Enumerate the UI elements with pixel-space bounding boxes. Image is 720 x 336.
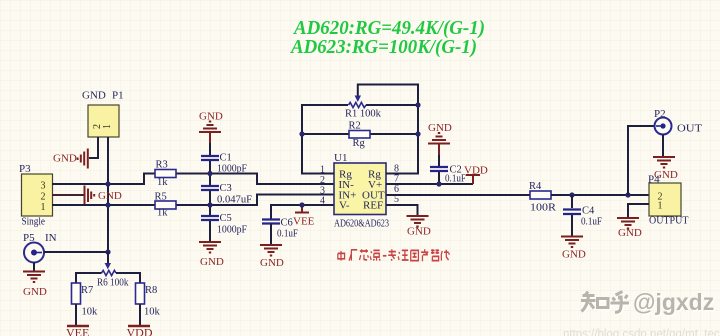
svg-text:AD620&AD623: AD620&AD623 — [334, 218, 389, 230]
wire P3 pin3 to R3 and U1 IN- — [52, 174, 155, 185]
svg-text:P2: P2 — [654, 108, 666, 120]
capacitor C3 0.047uF — [201, 183, 252, 206]
svg-text:VDD: VDD — [464, 165, 488, 177]
watermark 知乎 @jgxdz — [581, 289, 716, 316]
resistor R7 — [72, 283, 99, 318]
wire P1 pin2 to ground — [89, 137, 98, 158]
wire R8 to VDD — [139, 304, 141, 326]
svg-text:R3: R3 — [156, 160, 168, 171]
power VDD at U1 pin7 — [464, 165, 488, 185]
ground GND below C5 — [199, 242, 224, 268]
svg-text:GND: GND — [98, 190, 122, 202]
junction node P1/pin3 line — [105, 181, 110, 186]
ground GND at P3 pin2 — [85, 186, 95, 206]
svg-text:R6 100k: R6 100k — [97, 278, 129, 289]
svg-text:P3: P3 — [19, 163, 31, 175]
wire R3 to C1 node to U1 pin2 — [176, 174, 334, 185]
ground GND below P2 — [653, 157, 678, 181]
power VEE below R7 — [66, 326, 89, 336]
svg-text:GND: GND — [428, 122, 452, 134]
wire up to P2 — [628, 126, 655, 195]
svg-text:R2: R2 — [349, 121, 361, 132]
junction node R2 right — [415, 131, 420, 136]
svg-text:V-: V- — [339, 200, 350, 212]
svg-text:R1 100k: R1 100k — [345, 109, 382, 120]
junction node C2/pin7 — [436, 181, 441, 186]
wire R6 right to R8 — [116, 273, 140, 283]
svg-text:1: 1 — [41, 202, 46, 213]
svg-text:0.1uF: 0.1uF — [277, 229, 298, 240]
svg-text:1000pF: 1000pF — [217, 225, 247, 236]
wire R5 to C3 node to U1 pin3 — [176, 195, 334, 206]
svg-text:1k: 1k — [157, 177, 168, 188]
capacitor C1 1000pF — [201, 153, 247, 175]
wire P2 shield to ground — [662, 135, 664, 157]
svg-text:P4: P4 — [648, 174, 660, 186]
wire U1 pin8 to Rg loop — [358, 85, 418, 174]
svg-text:AD623:RG=100K/(G-1): AD623:RG=100K/(G-1) — [289, 36, 477, 58]
svg-text:C6: C6 — [281, 218, 293, 229]
connector P5 IN — [23, 232, 57, 263]
junction node C4 tap — [569, 192, 574, 197]
svg-text:U1: U1 — [334, 152, 347, 164]
svg-text:C4: C4 — [582, 206, 595, 217]
代 — [441, 250, 449, 261]
svg-text:10k: 10k — [82, 307, 99, 318]
junction node VEE/pin4 — [299, 202, 304, 207]
ground GND above C2 — [428, 122, 452, 155]
svg-text:VEE: VEE — [293, 216, 315, 228]
ground GND below C6 — [260, 245, 284, 269]
svg-text:1000pF: 1000pF — [217, 164, 247, 175]
svg-text:GND: GND — [407, 226, 431, 238]
resistor R2 Rg — [349, 121, 371, 150]
connector P1 — [82, 90, 124, 138]
产 — [421, 249, 428, 261]
- — [383, 255, 387, 257]
wire P4 pin1 to ground — [628, 204, 649, 217]
svg-text:R8: R8 — [145, 285, 157, 296]
svg-text:GND: GND — [562, 249, 586, 261]
svg-text:C5: C5 — [220, 213, 232, 224]
ground GND at P4 pin1 — [617, 218, 642, 239]
svg-text:7: 7 — [394, 174, 399, 185]
svg-text:IN: IN — [45, 232, 57, 244]
svg-text:100R: 100R — [530, 203, 556, 214]
svg-text:nttps://blog.csdn.net/qq/mt_te: nttps://blog.csdn.net/qq/mt_techno — [563, 329, 720, 336]
power VEE at U1 pin4 — [293, 205, 315, 228]
svg-text:REF: REF — [363, 200, 383, 212]
svg-text:GND: GND — [53, 153, 77, 165]
junction node P2/P4 — [625, 192, 630, 197]
svg-text:OUT: OUT — [677, 123, 702, 135]
wire U1 pin7 V+ to VDD — [386, 183, 473, 185]
resistor R5 — [155, 192, 177, 219]
svg-text:R7: R7 — [81, 285, 93, 296]
wire U1 pin5 REF to ground — [386, 205, 418, 215]
svg-text:R5: R5 — [155, 192, 167, 203]
svg-text:2: 2 — [41, 192, 46, 203]
wire P3 pin2 to ground — [52, 194, 84, 196]
svg-text:GND: GND — [260, 257, 284, 269]
svg-text:0.047uF: 0.047uF — [217, 195, 252, 206]
svg-text:GND: GND — [618, 227, 642, 239]
capacitor chain vertical wire — [209, 143, 211, 241]
中 — [338, 251, 345, 261]
wire R2 line — [302, 133, 418, 135]
wire P3 pin1 to R5 — [52, 204, 155, 206]
svg-text:OUTPUT: OUTPUT — [649, 216, 688, 227]
wire C6 to ground — [270, 224, 272, 245]
svg-text:10k: 10k — [144, 307, 161, 318]
svg-text:GND: GND — [200, 256, 224, 268]
capacitor C5 1000pF — [201, 213, 247, 236]
svg-text:1k: 1k — [157, 208, 168, 219]
ground GND left of P1 — [78, 149, 88, 169]
svg-text:0.1uF: 0.1uF — [581, 217, 602, 228]
wire U1 pin1 to Rg loop — [302, 105, 348, 174]
广 — [349, 250, 357, 261]
resistor R3 — [155, 160, 176, 189]
wire R4 to P4 — [551, 194, 649, 196]
svg-text:C3: C3 — [220, 183, 232, 194]
wire R6 left to R7 — [76, 273, 102, 283]
svg-text:VDD: VDD — [127, 326, 153, 336]
svg-text:3: 3 — [41, 181, 46, 192]
junction node R2 left — [299, 131, 304, 136]
wire P1 pin1 down to input net — [107, 137, 109, 252]
svg-text:1: 1 — [102, 124, 113, 129]
capacitor C6 0.1uF — [262, 218, 298, 240]
junction node input — [105, 249, 110, 254]
svg-text:P1: P1 — [112, 90, 124, 102]
capacitor C4 0.1uF — [563, 195, 602, 236]
ground GND below P5 — [23, 272, 47, 299]
connector P4 OUTPUT — [648, 174, 688, 227]
wire P5 to input node — [44, 251, 108, 253]
svg-text:GND: GND — [82, 90, 106, 102]
svg-text:VEE: VEE — [66, 326, 89, 336]
svg-text:R4: R4 — [529, 181, 542, 192]
svg-text:Rg: Rg — [353, 138, 366, 149]
svg-text:Single: Single — [22, 216, 46, 228]
junction node R1/wiper — [415, 102, 420, 107]
wire R7 to VEE — [75, 304, 77, 326]
svg-text:0.1uF: 0.1uF — [445, 174, 466, 185]
wire U1 pin6 OUT to R4 — [386, 194, 530, 196]
capacitor C2 0.1uF — [430, 155, 466, 185]
vendor note red chinese text — [338, 249, 450, 261]
wire R1 right lead — [366, 104, 418, 106]
potentiometer R6 100k — [97, 252, 129, 289]
junction node C3/R5 — [207, 202, 212, 207]
注 — [398, 250, 408, 260]
resistor R4 100R — [529, 181, 556, 214]
svg-text:GND: GND — [23, 286, 47, 298]
svg-text:2: 2 — [320, 175, 325, 186]
svg-text:C1: C1 — [220, 153, 232, 164]
resistor R8 — [136, 283, 161, 318]
wire P5 shield to ground — [33, 263, 35, 272]
专 — [388, 249, 396, 260]
potentiometer R1 100k — [345, 96, 382, 120]
connector P2 OUT — [654, 108, 702, 135]
op-amp U1 AD620&AD623 — [334, 152, 389, 230]
svg-text:GND: GND — [199, 111, 223, 123]
芯 — [359, 249, 368, 260]
ground GND at REF — [407, 216, 431, 238]
connector P3 — [19, 163, 53, 228]
power VDD below R8 — [127, 326, 153, 336]
svg-text:1: 1 — [658, 201, 663, 212]
wire U1 pin4 V- — [271, 205, 334, 219]
svg-text:@jgxdz: @jgxdz — [633, 289, 714, 315]
国 — [411, 250, 419, 260]
junction node P1/pin1 line — [105, 202, 110, 207]
junction node C1/R3 — [207, 171, 212, 176]
替 — [431, 249, 439, 260]
源 — [370, 250, 380, 260]
ground GND below C4 — [561, 237, 586, 261]
ground GND above C1 — [199, 111, 223, 144]
svg-text:4: 4 — [320, 196, 325, 207]
svg-text:P5: P5 — [23, 232, 35, 244]
